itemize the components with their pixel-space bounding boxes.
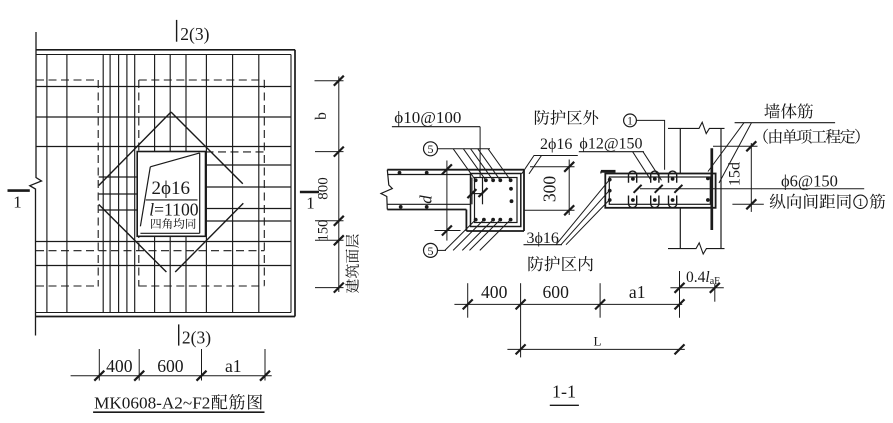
phi6 cut mark 3 (674, 185, 682, 193)
block top bar section 4 (498, 178, 502, 182)
plan right dim extension y2 (315, 151, 344, 153)
plan mesh horizontal bar h4 (36, 241, 291, 243)
note box inner right edge (199, 153, 201, 233)
wall right face (720, 128, 722, 248)
phi12 leader 1 (633, 152, 651, 181)
sec dim extension 2 (520, 283, 522, 357)
phi12 top hook x673 (669, 171, 677, 183)
zongxiang leader (732, 203, 763, 205)
phi12 top hook x633 (629, 171, 637, 183)
callout 1 leader (636, 120, 664, 169)
block bottom outer edge (466, 230, 524, 232)
plan dim tick 3 (197, 371, 207, 381)
svg-text:150: 150 (316, 220, 332, 242)
dim 0.4laf line (670, 287, 723, 289)
sec dim tick 1 (463, 299, 473, 309)
block bottom bar section 1 (474, 218, 478, 222)
svg-text:1-1: 1-1 (552, 382, 576, 402)
block right bar section 1 (509, 187, 513, 191)
svg-text:b: b (313, 112, 330, 120)
beam bar section 10 (671, 177, 675, 181)
plan mesh vertical bar v12 (232, 55, 234, 313)
callout 5 top leader diagonal 2 (463, 149, 486, 181)
phi12 top hook x655 (651, 171, 659, 183)
plan right dim extension y3 (315, 220, 344, 222)
plan mesh vertical bar v2 (66, 55, 68, 313)
plan right dimension line (338, 77, 340, 293)
svg-text:ϕ12@150: ϕ12@150 (579, 136, 642, 153)
plan right dim extension y1 (315, 80, 344, 82)
dim 15d tick top (746, 141, 756, 151)
phi10 leader (479, 127, 481, 177)
callout 5 bottom leader diagonal 3 (462, 220, 493, 251)
svg-text:1: 1 (13, 193, 22, 212)
callout circle 5 top (424, 142, 438, 156)
dim d tick bottom (442, 226, 452, 236)
beam bar section 6 (631, 177, 635, 181)
block right bar section 2 (510, 199, 514, 203)
phi6 bar line (640, 188, 864, 190)
svg-text:2ϕ16: 2ϕ16 (540, 136, 572, 153)
svg-text:5: 5 (428, 142, 434, 156)
phi12 bottom hook x633 (629, 196, 637, 208)
3phi16 leader 2 (561, 191, 609, 245)
dashed opening bottom edge segment right (139, 285, 264, 287)
wall bar no.1 (thick) (710, 148, 713, 230)
beam bar section 7 (631, 198, 635, 202)
diagonal corner bar lower-left (99, 204, 167, 272)
svg-text:1: 1 (627, 116, 633, 128)
label qiangtijin (764, 103, 812, 118)
note fraction bar (146, 199, 198, 201)
beam bar section 5 (706, 198, 710, 202)
beam bar section 11 (671, 198, 675, 202)
note box inner slant top (150, 153, 199, 167)
plan mesh vertical bar v11 (205, 55, 207, 313)
plan added horizontal bar right r3 (205, 208, 292, 210)
2phi16 leader 1 (522, 156, 534, 174)
slab bottom bar section a (399, 205, 403, 209)
sec dim extension 3 (599, 283, 601, 318)
beam outline (605, 174, 715, 208)
plan title underline (93, 411, 264, 413)
dashed opening top edge segment left (36, 79, 98, 81)
plan right dim extension y4 (315, 239, 344, 241)
block bottom bar section 4 (498, 218, 502, 222)
section title underline (550, 404, 579, 406)
qiangtijin leader 1 (708, 123, 744, 172)
dim 300 tick top (564, 162, 574, 172)
block bottom bar section 3 (491, 218, 495, 222)
block right outer edge (523, 170, 525, 231)
plan left cut edge with break symbol (30, 32, 42, 336)
3phi16 leader 1 (556, 180, 609, 245)
dim 15d tick bottom (746, 199, 756, 209)
qiangtijin leader 2 (719, 123, 752, 183)
plan title cjk part (211, 394, 262, 410)
plan slab right outer edge (294, 50, 296, 317)
plan dim tick 2 (134, 371, 144, 381)
beam stirrup (609, 177, 710, 204)
note text sijiaojuntong (151, 218, 195, 229)
block top bar section 3 (491, 178, 495, 182)
slab bottom bar section b (425, 205, 429, 209)
phi12 bottom hook x673 (669, 196, 677, 208)
sec dim extension 4 (679, 271, 681, 318)
label fanghuquwai (535, 110, 598, 125)
plan added horizontal bar left l3 (99, 209, 137, 211)
plan mesh horizontal bar h1 (36, 86, 291, 88)
plan mesh vertical bar v6 (126, 55, 128, 313)
svg-text:a1: a1 (629, 282, 646, 302)
section slab top outline (387, 169, 524, 171)
diagonal corner bar upper-right (171, 112, 243, 184)
plan mesh horizontal bar h5 (36, 265, 291, 267)
section slab top rebar line (387, 174, 470, 176)
phi12 leader 2 (643, 152, 662, 181)
dashed opening bottom edge segment left (36, 285, 98, 287)
svg-text:1: 1 (306, 194, 315, 213)
section mark 2(3) bottom line (178, 324, 180, 345)
block top bar section 1 (474, 178, 478, 182)
callout 5 bottom leader line (438, 249, 447, 251)
label zongxiang part1 (770, 194, 851, 209)
plan dim extension line x1 (98, 349, 100, 381)
dashed opening A right edge (97, 80, 99, 287)
sec dim line L (507, 348, 684, 350)
dashed edge y251 (36, 250, 264, 252)
beam bar section 9 (653, 198, 657, 202)
dim d tick top (442, 164, 452, 174)
beam top-left tab (601, 170, 616, 173)
callout 5 top leader diagonal 3 (471, 149, 494, 181)
plan right dim tick 4 (334, 235, 344, 245)
wall bottom cut with break (668, 243, 725, 254)
section mark 1 left line (8, 189, 30, 192)
svg-text:400: 400 (481, 282, 508, 302)
section slab left break symbol (381, 170, 392, 210)
plan right dim tick 3 (334, 216, 344, 226)
block splice cut mark right (479, 188, 488, 197)
dim 300 extension top (530, 166, 575, 168)
callout 5 bottom leader diagonal 4 (470, 220, 501, 251)
plan added horizontal bar left l1 (99, 176, 137, 178)
plan right dim tick 2 (334, 147, 344, 157)
sec dim extension 5 (714, 284, 716, 302)
callout circle 5 bottom (424, 243, 438, 257)
plan mesh vertical bar v10 (185, 55, 187, 313)
dim 300 line (568, 160, 570, 216)
svg-text:15d: 15d (727, 162, 744, 186)
svg-text:L: L (594, 334, 602, 349)
block stirrup inner (475, 178, 518, 223)
note box frame (137, 152, 205, 237)
svg-text:2(3): 2(3) (180, 24, 209, 44)
plan dim extension line x3 (201, 349, 203, 381)
plan added horizontal bar right r4 (205, 220, 292, 222)
plan slab bottom inner edge (36, 312, 291, 314)
dim d line (446, 161, 448, 241)
3phi16 leader 3 (566, 200, 609, 245)
callout 5 bottom leader diagonal 1 (445, 220, 476, 251)
wall left face upper (679, 128, 681, 173)
svg-text:600: 600 (543, 282, 570, 302)
callout 5 top leader diagonal 5 (488, 149, 511, 181)
svg-text:ϕ10@100: ϕ10@100 (394, 108, 461, 127)
plan mesh vertical bar v5 (118, 55, 120, 313)
plan mesh vertical bar v13 (258, 55, 260, 313)
section mark 2(3) top line (176, 20, 178, 42)
sec dim L tick 1 (516, 344, 526, 354)
sec dim L tick 2 (675, 344, 685, 354)
sec dim tick 4 (675, 299, 685, 309)
beam bar section 2 (608, 189, 612, 193)
plan slab right inner edge (290, 55, 292, 313)
plan slab bottom outer edge (36, 316, 295, 318)
plan slab top outer edge (37, 49, 296, 51)
block stirrup outer (471, 174, 521, 227)
2phi16 underline (534, 155, 578, 157)
wall left face lower (679, 208, 681, 249)
callout circle 1 (624, 114, 637, 127)
beam bar section 3 (608, 198, 612, 202)
svg-text:ϕ6@150: ϕ6@150 (781, 171, 838, 190)
callout 5 top leader line (438, 148, 491, 150)
plan mesh vertical bar v4 (109, 55, 111, 313)
svg-text:800: 800 (316, 177, 332, 200)
beam bar section 4 (706, 177, 710, 181)
section slab bottom rebar line (387, 203, 471, 205)
svg-text:300: 300 (540, 176, 560, 203)
block splice bar right (482, 178, 484, 205)
wall top cut with break (668, 122, 725, 133)
svg-text:2(3): 2(3) (182, 328, 211, 348)
dashed opening B right edge (263, 80, 265, 286)
block left step edge (465, 210, 467, 232)
callout 5 bottom leader diagonal 2 (453, 220, 484, 251)
plan bottom dimension line (71, 375, 272, 377)
label youdanxiang (763, 129, 859, 144)
slab top bar section a (398, 171, 402, 175)
svg-text:d: d (417, 195, 436, 204)
label zongxiang part2 (870, 194, 885, 209)
dim label jianzhumianceng (rotated) (345, 234, 359, 293)
section slab bottom outline (387, 209, 466, 211)
beam bar section 1 (608, 178, 612, 182)
diagonal corner bar lower-right (175, 203, 243, 272)
dim d extension bottom (435, 230, 461, 232)
plan dim extension line x4 (264, 349, 266, 381)
plan right dim extension y5 (315, 287, 344, 289)
sec dim extension 1 (467, 283, 469, 318)
block top bar section 5 (509, 178, 513, 182)
plan dim tick 4 (260, 371, 270, 381)
beam bar section 8 (653, 177, 657, 181)
dim 0.4laf tick 1 (675, 283, 685, 293)
block splice bar left (471, 178, 473, 205)
slab top bar section b (425, 171, 429, 175)
svg-text:l=1100: l=1100 (149, 200, 199, 220)
phi10 underline (392, 126, 480, 128)
callout 5 bottom leader diagonal 5 (480, 220, 511, 251)
svg-text:a1: a1 (225, 356, 242, 376)
3phi16 underline (524, 244, 563, 246)
label fanghuqunei (528, 256, 592, 272)
svg-text:MK0608-A2~F2: MK0608-A2~F2 (94, 393, 210, 412)
diagonal corner bar upper-left (99, 112, 171, 186)
2phi16 leader 2 (529, 156, 542, 174)
plan mesh vertical bar v1 (46, 55, 48, 313)
phi12 bottom hook x655 (651, 196, 659, 208)
dim 15d extension top (713, 145, 758, 147)
dim 300 extension bottom (524, 209, 575, 211)
dashed inner edge y152 (206, 151, 265, 153)
note box inner bottom edge (140, 232, 199, 234)
dashed opening top edge segment right (139, 79, 264, 81)
plan right dim tick 1 (334, 76, 344, 86)
plan right dim tick 5 (334, 283, 344, 293)
section mark 1 right line (300, 191, 319, 194)
phi12 underline (579, 151, 644, 153)
plan mesh vertical bar v9 (169, 55, 171, 313)
label zongxiang circled1 (854, 195, 867, 209)
phi6 cut mark 2 (655, 185, 663, 193)
plan mesh vertical bar v3 (102, 55, 104, 313)
dim 0.4laf tick 2 (710, 283, 720, 293)
block bottom bar section 2 (482, 218, 486, 222)
dim 300 tick bottom (564, 205, 574, 215)
block splice cut mark left (467, 189, 476, 198)
svg-text:1: 1 (858, 197, 864, 209)
block bottom bar section 5 (509, 218, 513, 222)
sec dim line row1 (454, 303, 682, 305)
svg-text:5: 5 (428, 244, 434, 258)
plan slab top inner edge (37, 54, 292, 56)
callout 5 top leader diagonal 4 (478, 149, 501, 181)
plan dim extension line x2 (138, 349, 140, 381)
sec dim tick 3 (595, 299, 605, 309)
plan mesh vertical bar v8 (154, 55, 156, 313)
plan added horizontal bar right r2 (205, 186, 292, 188)
note box inner slant left (140, 167, 150, 227)
callout 5 top leader diagonal 1 (453, 149, 476, 181)
beam top-left tab edge (600, 171, 602, 173)
qiangtijin underline (735, 122, 836, 124)
plan mesh horizontal bar h2 (36, 116, 291, 118)
svg-text:600: 600 (157, 356, 184, 376)
plan mesh vertical bar v7 (134, 55, 136, 313)
sec dim tick 2 (516, 299, 526, 309)
svg-text:2ϕ16: 2ϕ16 (152, 178, 191, 199)
plan mesh horizontal bar h3 (36, 146, 291, 148)
dashed opening B left edge (138, 80, 140, 287)
phi6 cut mark 1 (634, 185, 642, 193)
block top bar section 2 (484, 178, 488, 182)
block splice link (472, 193, 483, 195)
plan added horizontal bar left l2 (99, 193, 137, 195)
dim 15d line (750, 143, 752, 212)
svg-text:400: 400 (106, 356, 133, 376)
plan dim tick 1 (94, 371, 104, 381)
plan added horizontal bar right r1 (205, 164, 292, 166)
